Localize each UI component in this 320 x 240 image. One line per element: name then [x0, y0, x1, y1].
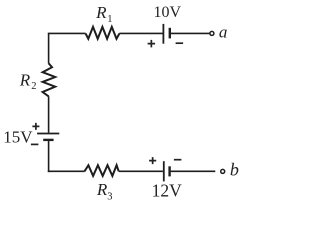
wire: battery 10V to terminal a [171, 32, 210, 34]
wire: R3 to battery 12V [119, 170, 163, 172]
svg-text:12V: 12V [152, 180, 183, 200]
resistor R3 [85, 165, 119, 176]
battery B2 (15V) positive long plate [37, 133, 59, 135]
resistor R2 [43, 63, 56, 96]
svg-text:2: 2 [31, 81, 36, 92]
battery B3 (12V) negative short plate [168, 166, 170, 176]
terminal a (open circle) [210, 31, 214, 35]
battery B1 plus sign [148, 40, 156, 48]
battery B1 (10V) negative short plate [169, 28, 171, 39]
battery B2 (15V) negative short plate [43, 139, 53, 141]
terminal b (open circle) [221, 169, 225, 173]
svg-text:b: b [230, 160, 239, 180]
svg-text:R: R [95, 3, 107, 22]
resistor R1 [86, 27, 120, 39]
wire: R2 to battery 15V [48, 96, 50, 132]
battery B2 plus sign [32, 123, 39, 130]
battery B3 (12V) positive long plate [163, 161, 165, 181]
battery B3 minus sign [174, 159, 182, 161]
wire: battery 15V to bottom-left corner [48, 141, 50, 172]
battery B2 minus sign [31, 143, 39, 145]
svg-text:15V: 15V [3, 128, 33, 147]
svg-text:10V: 10V [154, 4, 182, 21]
wire: top horizontal segment (corner to R1 left lead) [48, 32, 86, 34]
wire: battery 12V to terminal b [171, 170, 216, 172]
battery B1 (10V) positive long plate [162, 24, 164, 44]
wire: bottom horizontal segment (corner to R3 left lead) [48, 170, 85, 172]
svg-text:R: R [96, 180, 108, 199]
svg-text:1: 1 [107, 14, 112, 25]
battery B3 plus sign [149, 157, 156, 164]
svg-text:R: R [19, 70, 31, 89]
svg-text:a: a [219, 23, 228, 42]
svg-text:3: 3 [107, 192, 112, 203]
wire: top-left vertical segment (corner to R2 top) [48, 33, 50, 63]
wire: R1 to battery 10V [119, 32, 162, 34]
battery B1 minus sign [176, 42, 184, 44]
